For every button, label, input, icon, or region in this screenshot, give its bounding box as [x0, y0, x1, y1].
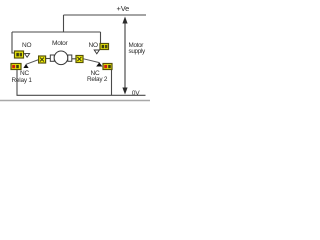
relay 2 NO fixed contact (open triangle) [94, 50, 99, 54]
svg-text:Relay 2: Relay 2 [87, 76, 108, 83]
0V supply rail wire [17, 94, 146, 96]
svg-text:+Ve: +Ve [117, 4, 130, 13]
motor supply arrow [122, 17, 127, 95]
relay 2 NC fixed contact (filled triangle) [96, 62, 102, 66]
wire: horizontal NO feed [12, 31, 101, 33]
wire: relay 1 pole to motor [46, 58, 51, 60]
wire: relay 2 NC terminal to 0V rail [111, 70, 113, 96]
motor body [54, 51, 68, 65]
wire: vertical drop from +Ve rail [63, 15, 65, 32]
svg-text:NO: NO [89, 42, 98, 49]
relay 2 NO contact terminal [100, 44, 109, 50]
svg-text:NC: NC [20, 70, 29, 77]
relay 1 NC contact terminal [11, 64, 21, 70]
+Ve supply rail wire [64, 14, 147, 16]
motor terminal left [50, 55, 54, 61]
relay 1 NO fixed contact (open triangle) [25, 54, 30, 58]
relay 2 NC contact terminal [103, 64, 112, 70]
svg-text:Relay 1: Relay 1 [12, 77, 33, 84]
wire: down to relay 2 NO terminal [100, 32, 102, 44]
wire: relay 1 NC terminal to 0V rail [16, 70, 18, 96]
svg-text:NO: NO [22, 42, 31, 49]
relay 2 pole terminal [76, 56, 83, 63]
svg-text:0V: 0V [132, 90, 140, 97]
wire: down to relay 1 NO terminal [12, 32, 15, 53]
bottom page divider [0, 100, 150, 102]
relay 2 moving contact arm [83, 59, 99, 63]
wire: motor to relay 2 pole [72, 58, 76, 60]
motor terminal right [68, 55, 72, 61]
relay 1 moving contact arm [26, 60, 39, 65]
relay 1 NC fixed contact (filled triangle) [23, 64, 28, 68]
svg-text:supply: supply [129, 48, 147, 55]
relay 1 pole terminal [39, 56, 46, 63]
svg-text:Motor: Motor [52, 40, 68, 47]
relay 1 NO contact terminal [15, 51, 24, 58]
